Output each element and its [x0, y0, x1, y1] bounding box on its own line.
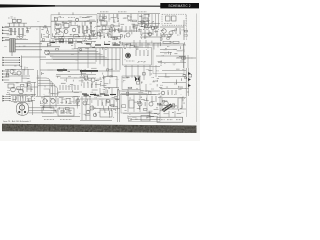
electrolytic can C20 [129, 100, 134, 108]
transistor Q12 [169, 31, 173, 35]
wire [56, 74, 96, 76]
transistor Q15 [17, 71, 21, 75]
component cluster texture [122, 97, 159, 121]
wire drop [125, 65, 127, 77]
wire [80, 98, 120, 100]
curved wire bend [38, 83, 55, 96]
component cluster texture [102, 41, 152, 50]
scattered tiny value labels [4, 15, 184, 115]
transistor Q1 [19, 35, 23, 39]
transistor Q19 [91, 78, 95, 82]
motor core [18, 105, 26, 113]
wire [133, 95, 135, 112]
wire [21, 56, 23, 70]
output terminal [3, 95, 10, 97]
transistor Q27 [164, 101, 168, 105]
wire [11, 101, 30, 103]
wire [89, 96, 91, 120]
component cluster texture [41, 38, 95, 51]
masthead rule thin segment [55, 5, 161, 7]
wire [160, 52, 172, 54]
wire [139, 40, 141, 48]
wire [23, 23, 25, 27]
bottom halftone bar [2, 124, 197, 133]
wire [36, 96, 80, 98]
wire [162, 82, 186, 84]
transistor Q26 [149, 102, 153, 106]
wire [99, 88, 101, 96]
output board [58, 108, 74, 116]
resistor R7 [86, 26, 87, 33]
label [8, 17, 16, 19]
component cluster texture [84, 96, 119, 118]
wire [34, 82, 36, 96]
wire [87, 48, 89, 68]
resistor R4 [22, 29, 23, 35]
wire [29, 112, 53, 114]
wire [183, 20, 185, 40]
resistor R1 [10, 29, 11, 35]
wire [13, 23, 15, 28]
junction [19, 62, 20, 63]
IF transformer T3 [143, 18, 148, 22]
wire comb [104, 14, 106, 22]
wire [15, 43, 42, 45]
power rail [188, 68, 190, 96]
wire drop [131, 65, 133, 78]
terminal [2, 70, 9, 72]
wire [127, 90, 129, 97]
resistor R2 [14, 29, 15, 35]
wire stub [72, 12, 74, 14]
svg-text:June 75 - Belt 100 Schematic 2: June 75 - Belt 100 Schematic 2 [3, 120, 32, 123]
transistor Q28 [171, 104, 175, 108]
wire [40, 105, 80, 107]
wire [158, 97, 186, 99]
wire [187, 55, 189, 68]
resistor group [84, 82, 96, 88]
dark component dashes [84, 94, 109, 96]
wire bottom rail [128, 120, 160, 122]
component cluster texture [52, 17, 95, 39]
transistor Q23 [83, 101, 87, 105]
filter block [104, 77, 117, 88]
coil L1 [55, 24, 61, 29]
input terminal J4 [3, 57, 10, 59]
component cluster texture [81, 68, 119, 95]
internal parts [61, 110, 70, 114]
capacitor C10 [8, 84, 14, 88]
transistor Q6 [109, 28, 113, 32]
wire comb [151, 14, 153, 26]
wire bundle [47, 52, 100, 54]
wire [120, 42, 160, 44]
wire [123, 112, 160, 114]
resistor group [136, 50, 148, 56]
paper scan noise [0, 10, 200, 134]
terminal [2, 37, 9, 39]
wire drop [95, 48, 97, 62]
resistor group [8, 69, 28, 75]
label [138, 61, 146, 63]
variable capacitor bowtie [135, 77, 140, 82]
component cluster texture [157, 69, 192, 95]
dashed border style [186, 14, 188, 40]
output terminal [3, 98, 10, 100]
wire [111, 88, 113, 96]
phono motor outline [17, 102, 29, 115]
wire [148, 14, 150, 17]
label [164, 23, 172, 25]
wire drop [153, 43, 155, 50]
power rail [185, 68, 187, 96]
wire [145, 40, 147, 48]
terminal [2, 79, 9, 81]
wire [117, 90, 119, 122]
wire [107, 68, 109, 77]
wire [4, 82, 36, 84]
component cluster texture [41, 26, 50, 38]
output terminal [3, 100, 10, 102]
power transformer T5 diagonal [162, 104, 173, 112]
wire [162, 70, 186, 72]
decoder block outline [123, 48, 152, 66]
wire [160, 49, 177, 51]
wire [119, 90, 121, 122]
input terminal J5 [3, 59, 10, 61]
dark bus segment [57, 69, 67, 71]
wire drop [135, 43, 137, 50]
wire stub [58, 12, 60, 15]
junction [19, 57, 20, 58]
wire [10, 64, 20, 66]
wire [130, 119, 160, 121]
wire [120, 90, 160, 92]
resistor group [168, 90, 176, 95]
wire [62, 21, 64, 26]
junction [9, 98, 10, 99]
resistor group [152, 96, 156, 102]
switch S1a [12, 19, 16, 22]
wire [94, 108, 120, 110]
dark core [126, 53, 131, 58]
wire input line to tuner [5, 26, 52, 28]
label [44, 119, 54, 121]
wire [32, 101, 34, 115]
label [138, 11, 147, 13]
antenna terminal J3 [2, 32, 9, 34]
component cluster texture [42, 70, 94, 97]
wire [145, 84, 147, 92]
wire [120, 94, 160, 96]
component cluster texture [82, 15, 121, 40]
label [118, 11, 127, 13]
junction [62, 36, 63, 37]
wire [11, 52, 13, 56]
resistor group [122, 26, 134, 32]
component cluster texture [12, 95, 35, 104]
wire [15, 46, 60, 48]
wire [158, 76, 186, 78]
wire [49, 96, 51, 108]
wire bundle [53, 59, 109, 61]
wire comb [155, 14, 157, 27]
resistor R5 [78, 26, 79, 33]
label [55, 34, 61, 36]
junction [46, 100, 47, 101]
transistor Q25 [138, 102, 142, 106]
transistor Q17 [19, 89, 24, 94]
component cluster texture [6, 66, 39, 95]
dashed page border [186, 14, 188, 40]
resistor R21 [173, 41, 179, 43]
coil L2 [64, 24, 69, 28]
terminal [2, 76, 9, 78]
wire [5, 75, 30, 77]
curved wire bend [38, 81, 53, 96]
diode D1 [188, 72, 191, 75]
wire [111, 68, 113, 77]
component cluster texture [7, 27, 31, 39]
junction [9, 96, 10, 97]
wire [10, 62, 20, 64]
label [188, 57, 193, 59]
meter M2 [172, 16, 177, 21]
transistor Q20 [161, 91, 165, 95]
wire rail [156, 55, 186, 57]
wire [29, 109, 53, 111]
wire [158, 62, 186, 64]
input terminal J6 [3, 62, 10, 64]
junction [19, 65, 20, 66]
wire [133, 40, 135, 48]
wire [10, 57, 20, 59]
wire drop [147, 43, 149, 49]
transistor Q14 [10, 70, 14, 74]
wire [168, 111, 170, 117]
curved wire bend [38, 78, 50, 96]
wire [39, 26, 41, 42]
svg-text:SCHEMATIC 2: SCHEMATIC 2 [168, 4, 190, 8]
wire [98, 70, 120, 72]
label TUNER [54, 17, 64, 19]
junction [78, 36, 79, 37]
wire [77, 48, 79, 70]
wire [9, 23, 11, 27]
wire drop [103, 48, 105, 66]
wire drop [107, 48, 109, 69]
wire [10, 59, 20, 61]
wire [117, 88, 119, 96]
wire bundle [49, 54, 103, 56]
label [60, 119, 72, 121]
resistor group [98, 100, 114, 106]
wire drop [111, 48, 113, 70]
wire [42, 116, 80, 118]
wire [97, 25, 120, 27]
wire main IF bus [78, 47, 122, 49]
dashed border [186, 96, 188, 117]
wire [5, 68, 34, 70]
capacitor C1 [26, 31, 29, 32]
wire bundle [52, 57, 108, 59]
component cluster texture [121, 15, 160, 39]
wire [122, 94, 156, 96]
wire comb [158, 14, 160, 28]
dense detector cluster [140, 25, 158, 38]
wire top rail [97, 13, 160, 15]
wire drop [157, 43, 159, 48]
page background [0, 0, 200, 141]
capacitor cluster [59, 39, 73, 42]
junction [19, 60, 20, 61]
large module outline [153, 44, 184, 74]
power supply block [100, 110, 112, 117]
fuse block F1 [141, 116, 150, 122]
wire rail [46, 62, 96, 64]
transistor Q10 [148, 32, 152, 36]
transistor Q18 [84, 76, 88, 80]
wire [40, 69, 57, 71]
transistor Q3 [64, 30, 68, 34]
resistor group [58, 98, 78, 104]
wire comb [99, 14, 101, 22]
transistor Q22 [51, 99, 55, 103]
wire drop [123, 43, 125, 48]
wire [140, 36, 160, 38]
wire [85, 96, 87, 120]
wire [81, 96, 83, 120]
resistor R6 [82, 26, 83, 33]
wire bundle [46, 51, 99, 53]
switch S1b [17, 19, 21, 22]
resistor group [27, 84, 31, 92]
wire drop [99, 48, 101, 64]
wire comb [148, 14, 150, 29]
dark bus segment [80, 70, 98, 72]
wire comb [144, 14, 146, 28]
wire [174, 111, 176, 117]
input terminal J7 [3, 64, 10, 66]
wire drop [141, 43, 143, 48]
terminal [2, 40, 9, 42]
wire [84, 21, 86, 26]
resistor group [162, 98, 182, 108]
schematic right border [196, 14, 198, 123]
transistor Q2 [56, 29, 60, 33]
shielded coil T4 [10, 39, 16, 53]
wire [105, 88, 107, 96]
wire drop [129, 43, 131, 49]
wire [124, 66, 160, 68]
junction [183, 57, 184, 58]
wire comb [141, 14, 143, 27]
wire [128, 116, 158, 118]
resistor R8 [90, 26, 91, 33]
wire ground bus [5, 39, 28, 41]
dense IF cluster [97, 28, 122, 40]
label [68, 17, 75, 19]
wire [139, 95, 141, 112]
wire bundle [50, 55, 105, 57]
component cluster texture [160, 28, 187, 40]
wire [70, 21, 72, 26]
transistor Q9 [151, 26, 155, 30]
dark component dashes [95, 43, 120, 46]
wire [43, 96, 45, 108]
component cluster texture [158, 42, 186, 66]
transistor Q5 [102, 26, 106, 30]
transistor Q32 [86, 110, 90, 114]
resistor group [141, 30, 157, 35]
wire [58, 91, 82, 93]
connector block TB1 [157, 117, 183, 122]
resistor group [100, 32, 112, 37]
wire [6, 94, 36, 96]
transistor Q11 [162, 29, 166, 33]
label [126, 60, 135, 62]
wire comb [108, 14, 110, 22]
label [160, 119, 165, 121]
wire [21, 69, 23, 82]
wire [138, 23, 160, 25]
wire [40, 41, 96, 43]
label [167, 119, 173, 121]
wire [67, 69, 80, 71]
transistor Q21 [43, 99, 47, 103]
transistor Q13 [45, 50, 50, 55]
terminal [2, 73, 9, 75]
wire top input bus [8, 22, 28, 24]
wire [160, 26, 184, 28]
component cluster texture [40, 96, 79, 114]
diode D2 [188, 78, 191, 81]
wire tuner lower bus [52, 36, 96, 38]
wire rail [40, 59, 120, 61]
meter M1 [166, 16, 171, 21]
wire drop [115, 48, 117, 70]
IF transformer T1 [101, 21, 107, 25]
wire [55, 96, 57, 108]
wire drop [155, 65, 157, 77]
label [100, 11, 109, 13]
wire [21, 102, 23, 115]
wire [18, 23, 20, 28]
transistor Q33 [93, 113, 96, 116]
wire [60, 77, 96, 79]
wire [24, 86, 38, 88]
wire [176, 57, 196, 59]
driver board [42, 107, 54, 113]
wire comb [137, 14, 139, 26]
transistor Q31 [75, 18, 78, 21]
wire tuner bus [51, 20, 96, 22]
resistor row [13, 96, 26, 101]
dark component dashes [82, 93, 116, 96]
wire drop [137, 65, 139, 79]
wire [80, 120, 112, 122]
wire comb [113, 14, 115, 22]
wire [22, 56, 47, 58]
title box [160, 3, 199, 8]
diode D3 [188, 84, 191, 87]
wire [15, 49, 42, 51]
transistor Q24 [90, 106, 94, 110]
wire bundle [44, 49, 96, 51]
wire [127, 95, 129, 112]
tuner block outline [51, 15, 97, 39]
antenna terminal J1 [2, 26, 9, 28]
